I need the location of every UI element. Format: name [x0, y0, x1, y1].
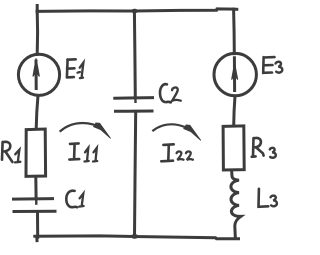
capacitor C2 — [115, 96, 153, 100]
wire bottom rail — [35, 236, 239, 239]
resistor R3 — [223, 126, 244, 170]
wire middle top (rail to C2) — [133, 11, 137, 98]
source E1 — [18, 54, 59, 95]
wire right top (rail to E3) — [232, 9, 236, 53]
label I22 — [161, 144, 193, 161]
inductor L3 — [231, 170, 241, 237]
node top-middle junction — [131, 9, 138, 14]
wire E3 to R3 — [234, 96, 235, 126]
wire top rail — [37, 9, 234, 12]
label E1 — [67, 59, 84, 78]
wire R1 to C1 — [34, 177, 37, 199]
wire E1 to R1 — [36, 96, 38, 129]
wire C2 to bottom rail — [135, 111, 136, 236]
label L3 — [259, 189, 277, 207]
wire C1 to bottom rail — [36, 212, 39, 238]
current I11 arrow — [61, 123, 111, 138]
node bottom-middle junction — [131, 234, 138, 239]
wire bottom-left corner overshoot — [35, 237, 38, 240]
current I22 arrow — [153, 124, 201, 140]
label R3 — [252, 138, 276, 158]
wire top-right corner overshoot — [234, 8, 237, 11]
capacitor C1 — [14, 197, 53, 201]
label C2 — [160, 84, 181, 102]
label E3 — [263, 57, 282, 73]
label I11 — [69, 143, 97, 161]
wire left top (rail to E1) — [36, 11, 39, 54]
resistor R1 — [26, 129, 46, 176]
label R1 — [2, 142, 20, 163]
label C1 — [66, 191, 83, 208]
source E3 — [214, 53, 256, 95]
wire top-left corner overshoot — [36, 6, 39, 13]
